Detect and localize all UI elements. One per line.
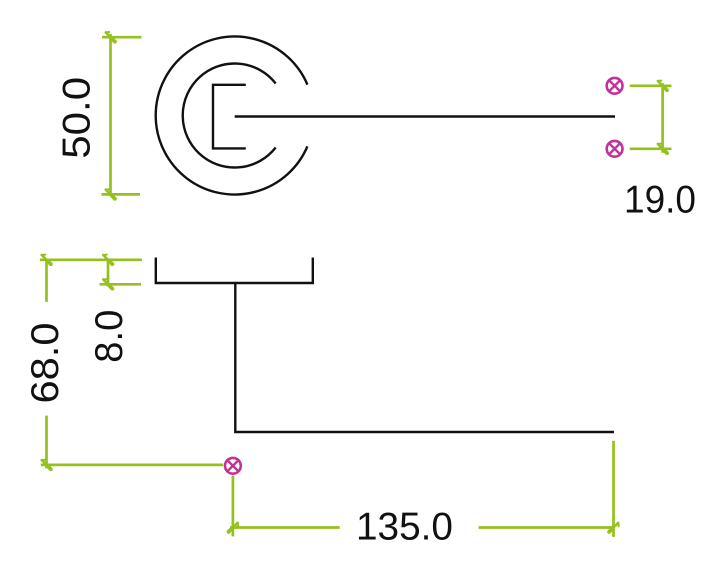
dim 19.0 (661, 83, 664, 152)
svg-text:68.0: 68.0 (24, 323, 67, 404)
svg-text:135.0: 135.0 (356, 506, 453, 549)
svg-text:19.0: 19.0 (624, 179, 696, 222)
dim 8.0 (107, 259, 110, 287)
spindle bracket (213, 85, 246, 149)
rose inner arc (183, 64, 276, 168)
svg-text:50.0: 50.0 (56, 77, 99, 159)
dim 50.0 (109, 34, 112, 197)
rose outer arc (156, 37, 308, 195)
rose profile (156, 258, 313, 284)
lever bar (plan) (235, 115, 615, 117)
svg-text:8.0: 8.0 (88, 310, 131, 363)
dim 135.0 (230, 526, 340, 529)
lever profile (stem + grip) (235, 283, 614, 432)
dim 68.0 (45, 259, 48, 302)
